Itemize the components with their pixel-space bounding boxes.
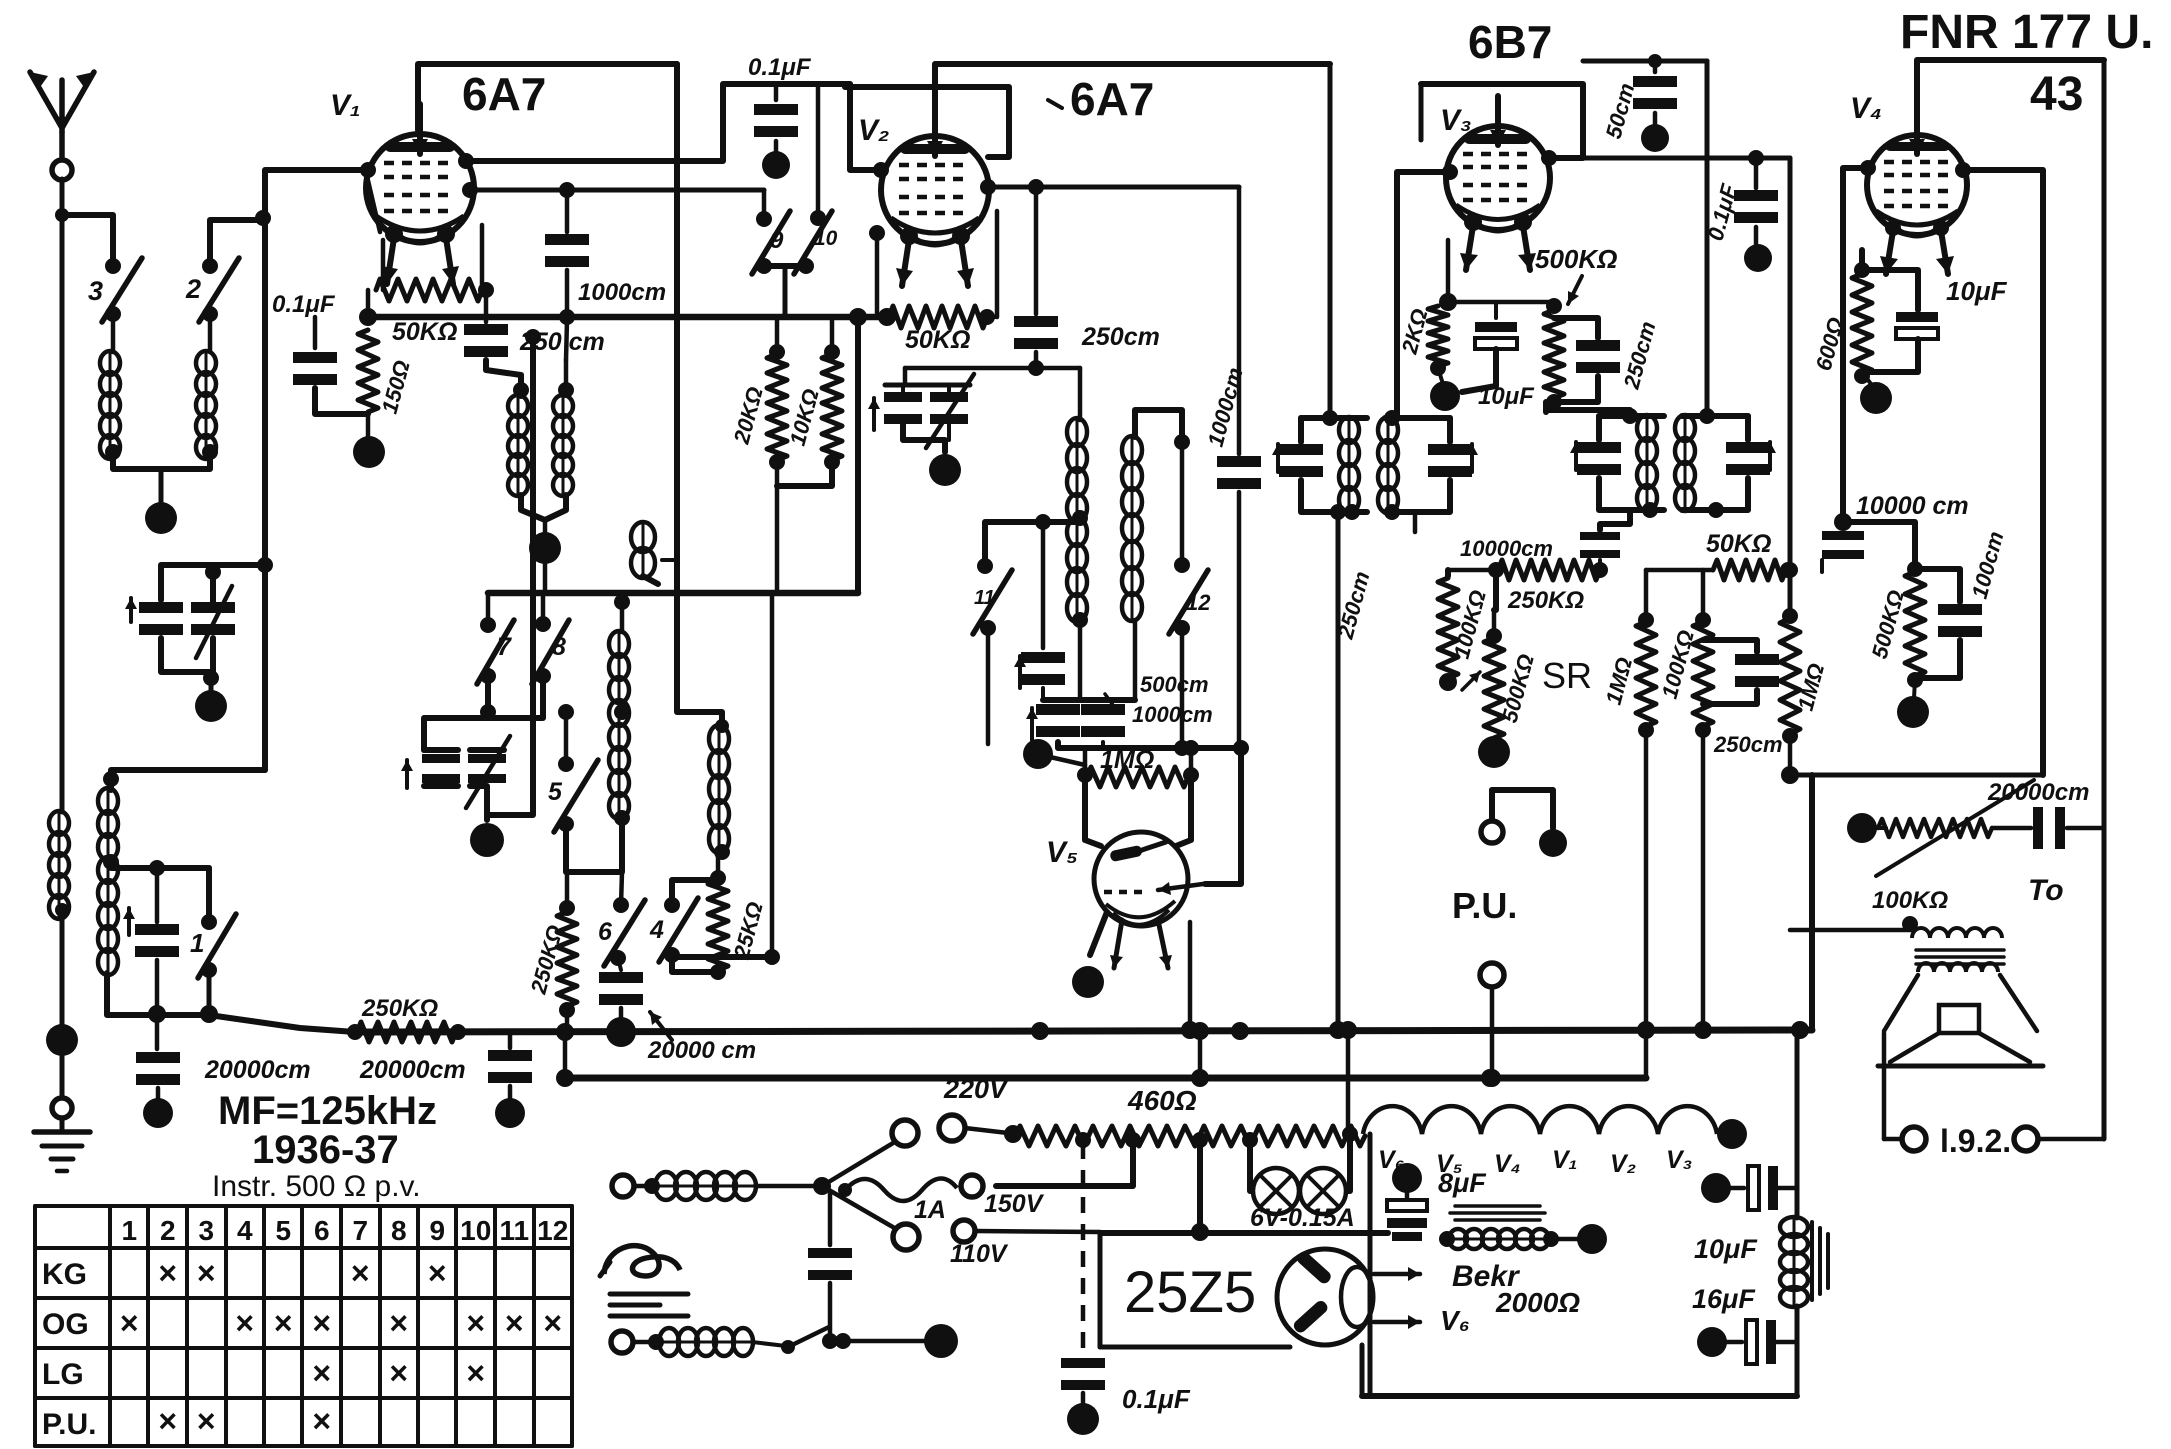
- svg-text:250KΩ: 250KΩ: [361, 995, 438, 1022]
- capacitor pot: [1992, 807, 2104, 849]
- coil L osc: [98, 788, 119, 975]
- IF transformer 2 unit4: [1675, 408, 1776, 518]
- svg-text:×: ×: [197, 1255, 216, 1291]
- resistor 100K sr2: [1657, 612, 1713, 738]
- capacitor 50cm: [1601, 61, 1677, 152]
- resistor 250K sr: [1498, 560, 1608, 614]
- wire 500Ksr top: [1494, 570, 1496, 610]
- svg-text:50KΩ: 50KΩ: [905, 326, 970, 354]
- wire avc junction: [359, 290, 377, 326]
- wire V5 grid: [1085, 777, 1101, 846]
- tube V3: [1446, 96, 1550, 270]
- wire PU box: [1790, 916, 1918, 932]
- wire tuning gang frame: [161, 564, 265, 602]
- wire x772 riser: [764, 593, 780, 965]
- label heaters: [1378, 1146, 1692, 1178]
- capacitor gang2b variable: [466, 736, 510, 808]
- svg-text:×: ×: [197, 1403, 216, 1439]
- svg-text:50KΩ: 50KΩ: [392, 318, 457, 346]
- resistor 50K V2: [878, 211, 997, 354]
- wire to pivot: [755, 1177, 831, 1195]
- coil osc V2 a: [1067, 368, 1088, 628]
- resistor 100K sr: [1438, 570, 1491, 691]
- label V4: [1850, 92, 1882, 125]
- svg-text:×: ×: [312, 1305, 331, 1341]
- svg-text:100KΩ: 100KΩ: [1872, 887, 1948, 914]
- wire tap 110V: [1191, 1140, 1209, 1241]
- capacitor 100cm: [1915, 529, 2009, 678]
- svg-text:V₂: V₂: [858, 114, 889, 147]
- wire V5 right down: [1181, 922, 1199, 1039]
- svg-text:1000cm: 1000cm: [1132, 702, 1213, 727]
- fuse 1A: [838, 1178, 957, 1224]
- svg-text:7: 7: [497, 633, 512, 661]
- wire V1 left lead: [360, 153, 478, 232]
- svg-text:V₂: V₂: [1610, 1150, 1636, 1178]
- wire gang2 frame: [470, 750, 504, 820]
- bus chassis 2: [565, 1075, 1646, 1082]
- switch 12: [1169, 442, 1211, 744]
- svg-text:l.9.2.: l.9.2.: [1940, 1123, 2011, 1159]
- svg-text:5: 5: [548, 778, 563, 806]
- tube V5: [1094, 832, 1203, 968]
- table band switch matrix: [35, 1206, 572, 1446]
- label MF: [218, 1089, 437, 1133]
- capacitor 0.1uF V3: [1703, 150, 1778, 272]
- capacitor 1000cm 2: [1203, 187, 1261, 748]
- svg-text:×: ×: [428, 1255, 447, 1291]
- svg-text:×: ×: [158, 1403, 177, 1439]
- resistor 500K sr: [1462, 610, 1539, 738]
- coil mains 1: [655, 1172, 756, 1200]
- wire V5 cath down: [1090, 912, 1107, 955]
- wire V1 out2: [470, 188, 764, 193]
- label V1: [330, 89, 361, 122]
- antenna: [30, 72, 94, 180]
- label 6V: [1250, 1204, 1355, 1232]
- capacitor 500cm: [1014, 514, 1065, 688]
- svg-text:1000cm: 1000cm: [578, 279, 666, 306]
- svg-text:1936-37: 1936-37: [252, 1128, 399, 1172]
- node mains blob: [924, 1324, 958, 1358]
- svg-text:FNR 177 U.: FNR 177 U.: [1900, 6, 2153, 59]
- capacitor 10uF ps: [1694, 1166, 1797, 1264]
- resistor 2K: [1396, 306, 1448, 376]
- wire coils blob down: [543, 562, 548, 593]
- wire V5 anode line: [1205, 740, 1249, 884]
- wire 1Mright down: [1781, 736, 1799, 784]
- wire mains L2 to blob: [822, 1333, 925, 1349]
- resistor 1M V5: [1077, 746, 1199, 787]
- svg-text:9: 9: [770, 227, 784, 254]
- svg-text:110V: 110V: [950, 1240, 1009, 1268]
- capacitor osc pad: [868, 368, 974, 452]
- IF transformer 1 secondary: [1378, 410, 1472, 520]
- lamp wiring: [1250, 1136, 1350, 1191]
- node tuning junction: [257, 557, 273, 573]
- svg-text:KG: KG: [42, 1258, 87, 1291]
- wire chain down: [1339, 1021, 1357, 1134]
- tube V1: [366, 104, 474, 284]
- rotary switch: [822, 1120, 919, 1250]
- svg-text:×: ×: [235, 1305, 254, 1341]
- svg-text:250cm: 250cm: [1713, 732, 1783, 757]
- node sw3 junction: [55, 208, 69, 222]
- wire 460 taps: [1075, 1132, 1258, 1148]
- svg-text:10: 10: [460, 1215, 491, 1246]
- coil mid2: [709, 719, 730, 860]
- node 500Ksr blob: [1478, 736, 1510, 768]
- capacitor 20000cm a: [136, 1015, 180, 1128]
- wire 10000 to 500K: [1843, 522, 1923, 577]
- wire 1M left up: [1023, 739, 1085, 775]
- label 20000cm b: [359, 1056, 466, 1084]
- label Bekr: [1440, 1260, 1580, 1336]
- potentiometer 20000cm: [1847, 779, 2089, 914]
- wire sw1 down: [207, 970, 212, 1015]
- wire V3 grid: [1397, 172, 1450, 418]
- svg-text:4: 4: [237, 1215, 253, 1246]
- resistor 600: [1811, 250, 1872, 384]
- svg-text:×: ×: [505, 1305, 524, 1341]
- svg-text:43: 43: [2030, 68, 2083, 121]
- resistor 1M right: [1780, 608, 1829, 744]
- wire tr leads: [1884, 975, 2037, 1031]
- label 10000cm v4: [1856, 492, 1969, 520]
- svg-text:3: 3: [198, 1215, 214, 1246]
- wire top bus V3: [1583, 54, 1707, 68]
- svg-text:16μF: 16μF: [1692, 1284, 1756, 1314]
- wire V1 top bus: [418, 64, 677, 130]
- svg-text:×: ×: [158, 1255, 177, 1291]
- svg-text:8: 8: [391, 1215, 407, 1246]
- arrow IF1 cap: [1272, 444, 1284, 472]
- label FNR: [1900, 6, 2153, 59]
- svg-text:OG: OG: [42, 1308, 89, 1341]
- switch 3: [88, 258, 142, 322]
- capacitor 250cm V3: [1554, 318, 1661, 402]
- wire PU right riser: [1809, 775, 1815, 1030]
- svg-text:5: 5: [275, 1215, 291, 1246]
- capacitor 250cm V2: [1014, 187, 1160, 368]
- resistor 1M sr: [1601, 612, 1656, 738]
- resistor 250K horizontal: [347, 995, 466, 1042]
- capacitor sw6 20000cm: [599, 966, 643, 1047]
- ground: [34, 1119, 90, 1171]
- wire V4 top: [1917, 60, 2104, 135]
- capacitor padder: [123, 868, 179, 1013]
- resistor 50K sr: [1646, 530, 1796, 580]
- wire speaker box: [1884, 1033, 2104, 1159]
- wire left rail: [107, 973, 209, 1015]
- coil L3: [100, 314, 121, 460]
- arrow IF1 cap2: [1466, 444, 1478, 472]
- capacitor 0.1uF mains: [1061, 1358, 1191, 1435]
- capacitor gang2a: [401, 750, 460, 788]
- resistor 10K: [785, 317, 842, 470]
- wire osc bottom bar: [1058, 740, 1239, 756]
- little curl: [631, 522, 677, 584]
- capacitor 10000cm v4: [1822, 513, 1864, 572]
- switch 2: [185, 258, 239, 322]
- label 20000cm a: [204, 1056, 311, 1084]
- label 500cm: [1105, 672, 1213, 727]
- svg-text:1: 1: [121, 1215, 137, 1246]
- coil B: [553, 320, 574, 496]
- svg-text:V₆: V₆: [1440, 1305, 1470, 1336]
- resistor 150 ohm: [358, 330, 415, 416]
- capacitor 16uF ps: [1692, 1284, 1797, 1364]
- svg-text:1: 1: [190, 928, 204, 958]
- tube V4: [1867, 105, 1967, 274]
- wire 100Ksr2 vert: [1694, 570, 1712, 1039]
- DC symbol: [610, 1294, 688, 1316]
- node V5 blob: [1072, 966, 1104, 998]
- capacitor 1000cm pair: [1026, 620, 1135, 740]
- wire sw5 T: [566, 818, 622, 872]
- wire IF1 riser: [1328, 64, 1333, 418]
- svg-text:6V-0.15A: 6V-0.15A: [1250, 1204, 1355, 1232]
- svg-text:4: 4: [649, 916, 664, 944]
- svg-text:8: 8: [552, 633, 566, 661]
- svg-text:11: 11: [499, 1215, 529, 1246]
- switch 7: [477, 593, 514, 684]
- wire coils join: [521, 495, 566, 532]
- wire tap dashed: [1081, 1143, 1086, 1355]
- label V2: [858, 114, 889, 147]
- node osc blob: [929, 454, 961, 486]
- wire gang2 feed: [424, 718, 488, 750]
- AC symbol: [600, 1246, 680, 1276]
- wire IF1 down: [1330, 504, 1375, 1030]
- coil mains 2: [659, 1328, 753, 1356]
- switch mains: [752, 1327, 851, 1354]
- svg-text:1A: 1A: [914, 1196, 946, 1224]
- svg-text:LG: LG: [42, 1358, 84, 1391]
- svg-text:×: ×: [543, 1305, 562, 1341]
- capacitor 250cm V1: [464, 282, 605, 357]
- svg-text:×: ×: [466, 1305, 485, 1341]
- node 150 blob: [353, 414, 385, 468]
- switch 6: [598, 872, 645, 966]
- wire pot right: [2102, 60, 2107, 1139]
- svg-text:12: 12: [537, 1215, 568, 1246]
- svg-text:V₃: V₃: [1440, 104, 1472, 137]
- tube V6 25Z5: [1277, 1249, 1420, 1345]
- bus chassis main: [355, 1030, 1812, 1032]
- resistor 250K vert: [525, 872, 577, 1032]
- wire 20K10K bottoms: [777, 462, 832, 593]
- svg-text:6A7: 6A7: [462, 68, 546, 120]
- wire V4 plate: [1965, 170, 2043, 775]
- svg-text:6: 6: [314, 1215, 330, 1246]
- label 6A7 second: [1048, 73, 1154, 125]
- node coil common blob: [145, 502, 177, 534]
- wire mid bus: [488, 590, 858, 597]
- capacitor 8uF: [1387, 1163, 1487, 1241]
- svg-text:×: ×: [312, 1355, 331, 1391]
- wire V3 plate line: [1442, 150, 1790, 180]
- svg-text:8μF: 8μF: [1438, 1168, 1487, 1198]
- wire V5 plate right: [1176, 777, 1191, 846]
- svg-text:150V: 150V: [984, 1190, 1045, 1218]
- wire V3 box: [1421, 84, 1583, 158]
- capacitor 0.1uF V2: [748, 54, 812, 179]
- wire bus stub 1200: [1198, 1031, 1203, 1078]
- heater chain: [1342, 1106, 1747, 1149]
- wire sw78 join: [480, 676, 543, 720]
- svg-text:20000cm: 20000cm: [1987, 779, 2089, 806]
- label 43: [2030, 68, 2083, 121]
- node 500Kv4 blob: [1897, 680, 1929, 728]
- wire ant to ground: [52, 1056, 72, 1118]
- IF transformer 1 primary: [1279, 410, 1367, 520]
- coil mid1: [609, 593, 630, 826]
- svg-text:460Ω: 460Ω: [1127, 1085, 1197, 1116]
- capacitor 1000cm: [545, 182, 666, 317]
- coil A: [508, 395, 528, 496]
- svg-text:500cm: 500cm: [1140, 672, 1209, 697]
- label 0.1uF v1: [272, 291, 336, 318]
- svg-text:0.1μF: 0.1μF: [748, 54, 812, 81]
- wire V1 grid vertical: [265, 170, 368, 770]
- box power right: [1362, 1030, 1797, 1396]
- wire mains L2: [611, 1331, 664, 1353]
- capacitor 0.1uF V1: [293, 317, 368, 414]
- transformer output: [1912, 928, 2004, 972]
- resistor 500K v4: [1867, 572, 1925, 688]
- lamp 1: [1253, 1168, 1299, 1214]
- wire osc tap: [111, 860, 209, 876]
- svg-text:×: ×: [351, 1255, 370, 1291]
- wire antenna to switch 3: [62, 215, 113, 262]
- wire V2 plate: [990, 179, 1239, 195]
- node coils blob: [529, 532, 561, 564]
- capacitor 10000cm sr: [1580, 510, 1630, 570]
- coil antenna lower: [49, 811, 69, 919]
- switch 1: [190, 868, 236, 978]
- box 25Z5: [1100, 1233, 1388, 1347]
- svg-text:10000cm: 10000cm: [1460, 536, 1553, 561]
- node gang2 blob: [470, 823, 504, 857]
- svg-text:×: ×: [120, 1305, 139, 1341]
- svg-text:9: 9: [429, 1215, 445, 1246]
- label 25Z5: [1124, 1260, 1256, 1325]
- svg-text:V₄: V₄: [1850, 92, 1882, 125]
- switch 11: [973, 522, 1078, 744]
- node 2K blob: [1430, 368, 1460, 411]
- label 6B7: [1468, 16, 1552, 68]
- resistor 50K V1: [376, 279, 482, 346]
- wire osc coil feed: [103, 770, 265, 790]
- svg-text:500KΩ: 500KΩ: [1535, 244, 1617, 274]
- wire 1Msr up: [1644, 570, 1649, 620]
- wire ant coil down: [60, 918, 65, 1025]
- svg-text:×: ×: [466, 1355, 485, 1391]
- wire x1790 riser: [1782, 158, 1798, 614]
- switch 4: [649, 897, 698, 963]
- wire bus link left: [556, 1023, 574, 1087]
- terminal 220V: [939, 1074, 1022, 1143]
- choke filter: [1780, 1217, 1828, 1307]
- label 1936-37: [252, 1128, 399, 1172]
- label 20000cm sw6: [647, 1012, 756, 1064]
- svg-text:3: 3: [88, 276, 103, 306]
- node avc coilB: [559, 309, 575, 325]
- svg-text:0.1μF: 0.1μF: [1122, 1384, 1191, 1414]
- svg-text:V₃: V₃: [1666, 1146, 1692, 1174]
- resistor 500K V3: [1544, 298, 1564, 410]
- wire V3 plate down: [1546, 402, 1630, 416]
- wire tuning gang bottom: [161, 638, 219, 694]
- node 600 blob: [1860, 380, 1892, 414]
- wire V1 cath leads: [383, 225, 482, 290]
- svg-text:V₁: V₁: [330, 89, 361, 122]
- svg-text:Instr. 500 Ω p.v.: Instr. 500 Ω p.v.: [212, 1170, 421, 1203]
- svg-text:6: 6: [598, 918, 613, 946]
- svg-text:20000cm: 20000cm: [204, 1056, 311, 1084]
- svg-text:P.U.: P.U.: [1452, 885, 1517, 926]
- wire sw910 T: [764, 266, 806, 315]
- tube V2: [881, 106, 989, 286]
- switch 8: [532, 593, 569, 684]
- svg-text:×: ×: [389, 1305, 408, 1341]
- wire osc bus: [905, 360, 1080, 376]
- svg-text:0.1μF: 0.1μF: [272, 291, 336, 318]
- wire coil common: [113, 452, 210, 502]
- pickup P.U.: [1452, 790, 1567, 926]
- label 10000cm sr: [1460, 536, 1553, 561]
- resistor 20K: [728, 317, 787, 470]
- wire B+ feed: [1790, 773, 2043, 778]
- svg-text:10μF: 10μF: [1694, 1234, 1758, 1264]
- svg-text:SR: SR: [1542, 655, 1592, 696]
- wire 10000cm top: [1448, 562, 1504, 578]
- transformer Bekr: [1439, 1206, 1607, 1254]
- svg-text:6A7: 6A7: [1070, 73, 1154, 125]
- switch 10: [794, 84, 838, 274]
- capacitor tuning C1a: [125, 598, 183, 635]
- svg-text:7: 7: [352, 1215, 368, 1246]
- svg-text:10μF: 10μF: [1478, 383, 1535, 410]
- wire 1Msr down: [1637, 730, 1655, 1078]
- switch 5: [548, 704, 598, 832]
- node grid junction: [255, 210, 271, 226]
- label V3: [1440, 104, 1472, 137]
- terminal PU center: [1480, 963, 1504, 1087]
- svg-text:220V: 220V: [943, 1074, 1009, 1104]
- svg-text:V₅: V₅: [1046, 836, 1078, 869]
- svg-text:To: To: [2028, 874, 2064, 907]
- capacitor 10uF V3: [1462, 302, 1535, 410]
- capacitor tuning C1b variable: [191, 586, 235, 658]
- svg-text:10000 cm: 10000 cm: [1856, 492, 1969, 520]
- wire V2 left box: [845, 87, 1009, 157]
- label V5: [1046, 836, 1078, 869]
- terminal 110V: [950, 1220, 1100, 1268]
- svg-text:10μF: 10μF: [1946, 276, 2008, 306]
- label Instr: [212, 1170, 421, 1203]
- svg-text:50KΩ: 50KΩ: [1706, 530, 1771, 558]
- svg-text:250KΩ: 250KΩ: [1507, 587, 1584, 614]
- svg-text:20000 cm: 20000 cm: [647, 1037, 756, 1064]
- svg-text:12: 12: [1186, 590, 1211, 615]
- svg-text:P.U.: P.U.: [42, 1408, 96, 1441]
- svg-text:×: ×: [274, 1305, 293, 1341]
- capacitor 20000cm b: [488, 1032, 532, 1128]
- resistor 460 ohm: [1015, 1085, 1365, 1146]
- wire IF1 sec stub: [1413, 512, 1418, 532]
